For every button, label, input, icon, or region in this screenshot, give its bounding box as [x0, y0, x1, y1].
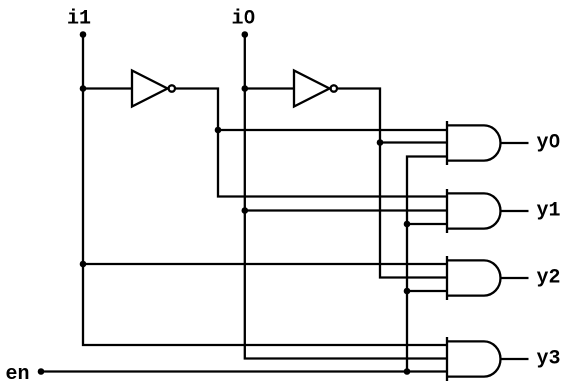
svg-text:y3: y3	[537, 348, 561, 371]
wire en branch to y2 bottom input	[407, 290, 447, 292]
wire y3 output	[501, 358, 529, 360]
AND gate U4 (output y1)	[446, 189, 501, 233]
junction i1 to inverter U1	[80, 85, 87, 92]
wire y0 output	[501, 142, 529, 144]
wire i1 to inverter U1 input	[83, 87, 132, 89]
wire en branch to y1 bottom input	[407, 223, 447, 225]
node i1 terminal dot	[80, 31, 87, 38]
node i0 terminal dot	[242, 31, 249, 38]
junction i0 to inverter U2	[242, 85, 249, 92]
wire i1 branch to y2 top input	[83, 263, 447, 265]
junction i0n to y0 gate	[377, 139, 384, 146]
wire en vertical branch, turns right to y0 bottom input	[407, 157, 447, 372]
svg-text:en: en	[6, 363, 30, 386]
wire i0 branch to y1 middle input	[245, 209, 447, 211]
wire inverter U2 output to i0n vertical, turns right to y2 middle input	[338, 89, 447, 278]
wire y1 output	[501, 210, 529, 212]
wire i1 vertical trunk, turns right to y3 top input	[83, 35, 447, 346]
wire i0 vertical trunk, turns right to y3 middle input	[245, 35, 447, 359]
junction i1 to y2 gate	[80, 261, 87, 268]
inverter U2 (i0 NOT gate) triangle	[294, 71, 330, 107]
svg-text:y1: y1	[537, 200, 561, 223]
junction i0 to y1 gate	[242, 207, 249, 214]
inverter U1 (i1 NOT gate) triangle	[132, 71, 168, 107]
junction en to vertical branch	[404, 368, 411, 375]
svg-text:y2: y2	[537, 267, 561, 290]
wire en horizontal line to y3 bottom input	[41, 370, 447, 372]
wire i0 to inverter U2 input	[245, 87, 294, 89]
wire i1n branch to y0 top input	[218, 129, 447, 131]
junction en to y1 gate	[404, 221, 411, 228]
node en terminal dot	[38, 368, 45, 375]
AND gate U3 (output y0)	[446, 121, 501, 165]
svg-text:i1: i1	[67, 8, 91, 31]
junction en to y2 gate	[404, 288, 411, 295]
inverter U2 bubble	[331, 85, 337, 91]
AND gate U5 (output y2)	[446, 256, 501, 300]
wire y2 output	[501, 277, 529, 279]
svg-text:y0: y0	[537, 132, 561, 155]
wire i0n branch to y0 middle input	[380, 141, 447, 143]
junction i1n to y0 gate	[215, 127, 222, 134]
inverter U1 bubble	[169, 85, 175, 91]
AND gate U6 (output y3)	[446, 337, 501, 381]
svg-text:i0: i0	[232, 8, 256, 31]
wire inverter U1 output to i1n vertical, turns right to y1 top input	[176, 89, 447, 197]
